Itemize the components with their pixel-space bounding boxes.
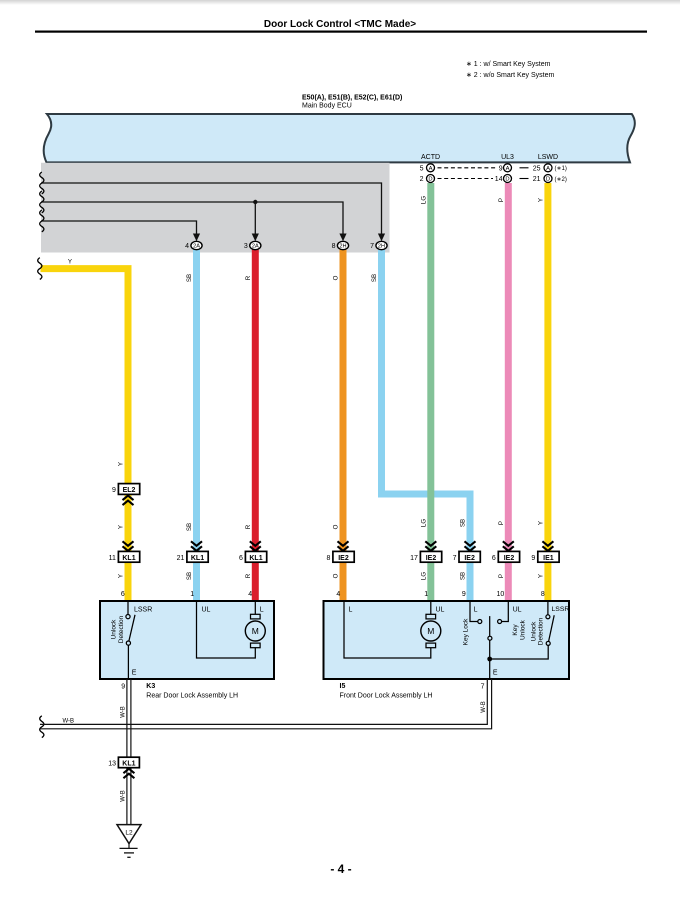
svg-text:∗ 2 : w/o Smart Key System: ∗ 2 : w/o Smart Key System — [466, 72, 555, 79]
svg-text:∗ 1 : w/ Smart Key System: ∗ 1 : w/ Smart Key System — [466, 61, 551, 68]
svg-text:R: R — [245, 275, 252, 280]
svg-text:4: 4 — [336, 591, 340, 598]
svg-text:9: 9 — [121, 683, 125, 690]
svg-text:SB: SB — [186, 572, 193, 580]
svg-text:9: 9 — [499, 165, 503, 172]
svg-text:4: 4 — [185, 243, 189, 250]
svg-text:25: 25 — [533, 165, 541, 172]
svg-text:Key Lock: Key Lock — [463, 618, 470, 645]
svg-text:8: 8 — [326, 555, 330, 562]
svg-text:Unlock: Unlock — [519, 619, 526, 640]
svg-text:W-B: W-B — [120, 706, 126, 718]
svg-text:IE2: IE2 — [464, 555, 475, 562]
svg-text:(∗1): (∗1) — [555, 166, 567, 172]
svg-text:O: O — [333, 524, 340, 529]
svg-text:Y: Y — [537, 574, 544, 578]
svg-text:UL: UL — [202, 606, 211, 613]
svg-text:6: 6 — [239, 555, 243, 562]
svg-text:LG: LG — [420, 519, 427, 527]
svg-text:M: M — [427, 626, 434, 636]
svg-text:D: D — [546, 177, 550, 183]
svg-text:Rear Door Lock Assembly LH: Rear Door Lock Assembly LH — [146, 692, 238, 699]
svg-text:L: L — [474, 606, 478, 613]
svg-text:A: A — [506, 166, 510, 172]
svg-text:7: 7 — [370, 243, 374, 250]
svg-text:LG: LG — [420, 572, 427, 580]
svg-text:SB: SB — [186, 274, 193, 282]
svg-text:I5: I5 — [340, 683, 346, 690]
svg-text:W-B: W-B — [63, 719, 75, 725]
svg-text:9: 9 — [112, 487, 116, 494]
svg-text:R: R — [245, 524, 252, 529]
svg-text:4: 4 — [248, 591, 252, 598]
svg-text:KL1: KL1 — [191, 555, 204, 562]
svg-text:IE2: IE2 — [504, 555, 515, 562]
svg-text:KL1: KL1 — [122, 555, 135, 562]
svg-text:SB: SB — [460, 572, 467, 580]
svg-text:W-B: W-B — [120, 790, 126, 802]
svg-text:Unlock: Unlock — [531, 621, 538, 642]
svg-text:SB: SB — [460, 519, 467, 527]
svg-text:SB: SB — [186, 523, 193, 531]
svg-text:Y: Y — [68, 259, 72, 266]
svg-text:7: 7 — [453, 555, 457, 562]
svg-text:D: D — [505, 177, 509, 183]
svg-text:Main Body ECU: Main Body ECU — [302, 103, 352, 110]
svg-text:Detection: Detection — [118, 615, 125, 643]
svg-text:2A: 2A — [252, 244, 259, 250]
svg-text:8: 8 — [541, 591, 545, 598]
svg-text:IE1: IE1 — [543, 555, 554, 562]
svg-text:LG: LG — [420, 196, 427, 204]
svg-text:O: O — [333, 573, 340, 578]
svg-text:A: A — [429, 166, 433, 172]
svg-text:Y: Y — [537, 198, 544, 202]
svg-text:E50(A), E51(B), E52(C), E61(D): E50(A), E51(B), E52(C), E61(D) — [302, 95, 402, 102]
svg-text:10: 10 — [497, 591, 505, 598]
svg-text:Door Lock Control <TMC Made>: Door Lock Control <TMC Made> — [264, 19, 416, 30]
svg-text:Y: Y — [118, 574, 125, 578]
svg-text:P: P — [498, 198, 505, 202]
svg-text:D: D — [428, 177, 432, 183]
svg-text:O: O — [333, 275, 340, 280]
svg-text:6: 6 — [121, 591, 125, 598]
svg-text:Key: Key — [512, 624, 519, 636]
svg-text:IE2: IE2 — [426, 555, 437, 562]
svg-text:6: 6 — [492, 555, 496, 562]
svg-text:5: 5 — [420, 165, 424, 172]
svg-text:14: 14 — [495, 176, 503, 183]
svg-text:2A: 2A — [193, 244, 200, 250]
svg-text:3: 3 — [244, 243, 248, 250]
svg-text:Detection: Detection — [538, 617, 545, 645]
svg-text:ACTD: ACTD — [421, 154, 440, 161]
svg-text:11: 11 — [109, 555, 116, 562]
svg-text:9: 9 — [531, 555, 535, 562]
svg-text:LSSR: LSSR — [552, 606, 570, 613]
svg-text:M: M — [252, 626, 259, 636]
svg-text:UL: UL — [436, 606, 445, 613]
svg-text:R: R — [245, 573, 252, 578]
svg-text:Y: Y — [118, 525, 125, 529]
svg-text:W-B: W-B — [481, 701, 487, 713]
svg-text:2: 2 — [420, 176, 424, 183]
svg-text:P: P — [498, 521, 505, 525]
svg-text:Y: Y — [537, 521, 544, 525]
svg-text:L2: L2 — [125, 830, 133, 837]
svg-text:17: 17 — [410, 555, 418, 562]
svg-text:EL2: EL2 — [123, 487, 136, 494]
svg-text:21: 21 — [533, 176, 541, 183]
svg-text:KL1: KL1 — [249, 555, 262, 562]
svg-text:Unlock: Unlock — [110, 619, 117, 640]
svg-text:- 4 -: - 4 - — [330, 862, 351, 876]
svg-text:8: 8 — [332, 243, 336, 250]
svg-text:E: E — [132, 670, 137, 677]
svg-text:13: 13 — [108, 761, 116, 768]
svg-text:KL1: KL1 — [122, 761, 135, 768]
svg-text:UL: UL — [513, 606, 522, 613]
svg-text:UL3: UL3 — [501, 154, 514, 161]
svg-text:LSWD: LSWD — [538, 154, 558, 161]
svg-text:9: 9 — [462, 591, 466, 598]
svg-text:L: L — [349, 606, 353, 613]
svg-text:1: 1 — [424, 591, 428, 598]
svg-text:IE2: IE2 — [338, 555, 349, 562]
svg-text:L: L — [260, 606, 264, 613]
svg-text:E: E — [493, 670, 498, 677]
svg-text:7: 7 — [481, 683, 485, 690]
svg-text:P: P — [498, 574, 505, 578]
svg-text:K3: K3 — [146, 683, 155, 690]
svg-text:Front Door Lock Assembly LH: Front Door Lock Assembly LH — [340, 692, 433, 699]
svg-text:1: 1 — [190, 591, 194, 598]
svg-text:Y: Y — [118, 462, 125, 466]
svg-text:2H: 2H — [378, 244, 385, 250]
svg-text:SB: SB — [371, 274, 378, 282]
svg-text:A: A — [546, 166, 550, 172]
svg-text:(∗2): (∗2) — [555, 177, 567, 183]
svg-text:LSSR: LSSR — [134, 606, 152, 613]
svg-text:21: 21 — [177, 555, 185, 562]
svg-text:2H: 2H — [339, 244, 346, 250]
